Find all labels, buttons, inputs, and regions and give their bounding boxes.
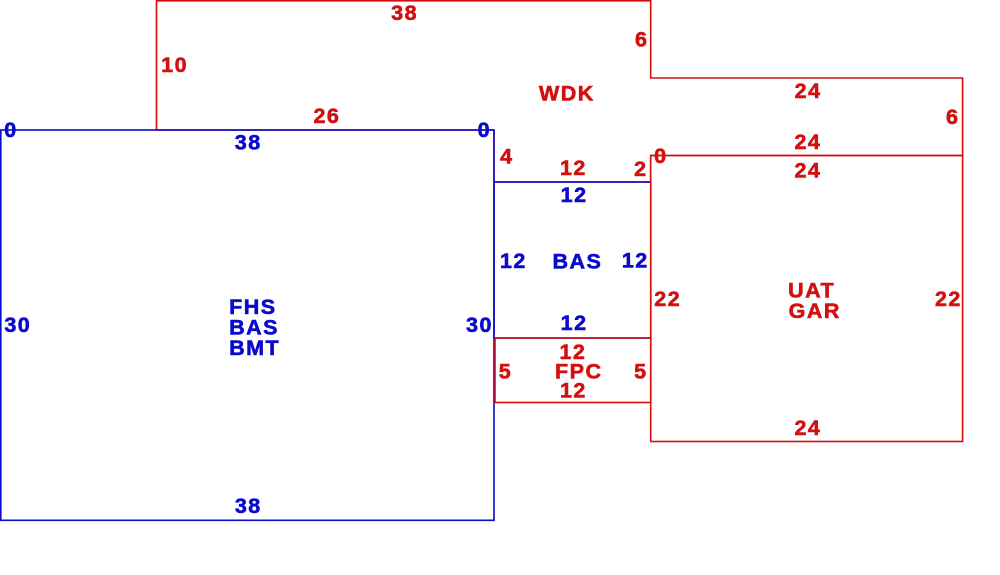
- svg-text:BAS: BAS: [552, 250, 602, 274]
- svg-text:12: 12: [622, 249, 649, 273]
- svg-text:24: 24: [794, 416, 821, 440]
- svg-text:26: 26: [313, 104, 340, 128]
- svg-text:5: 5: [499, 360, 512, 384]
- svg-text:30: 30: [466, 313, 493, 337]
- svg-text:12: 12: [560, 156, 587, 180]
- BAS rear section outline (blue rect): [494, 182, 651, 338]
- UAT GAR garage outline (red rect): [651, 156, 963, 442]
- svg-text:WDK: WDK: [539, 82, 595, 106]
- WDK wood deck outline (red polygon): [157, 1, 963, 182]
- svg-text:12: 12: [561, 311, 588, 335]
- svg-text:38: 38: [391, 1, 418, 25]
- svg-text:6: 6: [946, 105, 959, 129]
- svg-text:22: 22: [654, 287, 681, 311]
- svg-text:38: 38: [235, 494, 262, 518]
- svg-text:0: 0: [654, 144, 667, 168]
- FHS/BAS/BMT main house outline (blue rect): [1, 130, 494, 520]
- svg-text:24: 24: [794, 130, 821, 154]
- svg-text:10: 10: [161, 53, 188, 77]
- svg-text:12: 12: [561, 183, 588, 207]
- svg-text:38: 38: [235, 131, 262, 155]
- svg-text:24: 24: [795, 79, 822, 103]
- svg-text:GAR: GAR: [789, 299, 841, 323]
- svg-text:BMT: BMT: [229, 336, 280, 360]
- svg-text:12: 12: [560, 379, 587, 403]
- svg-text:30: 30: [4, 313, 31, 337]
- svg-text:24: 24: [794, 158, 821, 182]
- svg-text:6: 6: [635, 27, 648, 51]
- svg-text:5: 5: [634, 360, 647, 384]
- svg-text:4: 4: [500, 144, 513, 168]
- svg-text:12: 12: [500, 249, 527, 273]
- svg-text:22: 22: [935, 287, 962, 311]
- FPC porch outline (red rect): [495, 338, 651, 403]
- svg-text:2: 2: [634, 157, 647, 181]
- svg-text:0: 0: [478, 118, 491, 142]
- svg-text:0: 0: [4, 118, 17, 142]
